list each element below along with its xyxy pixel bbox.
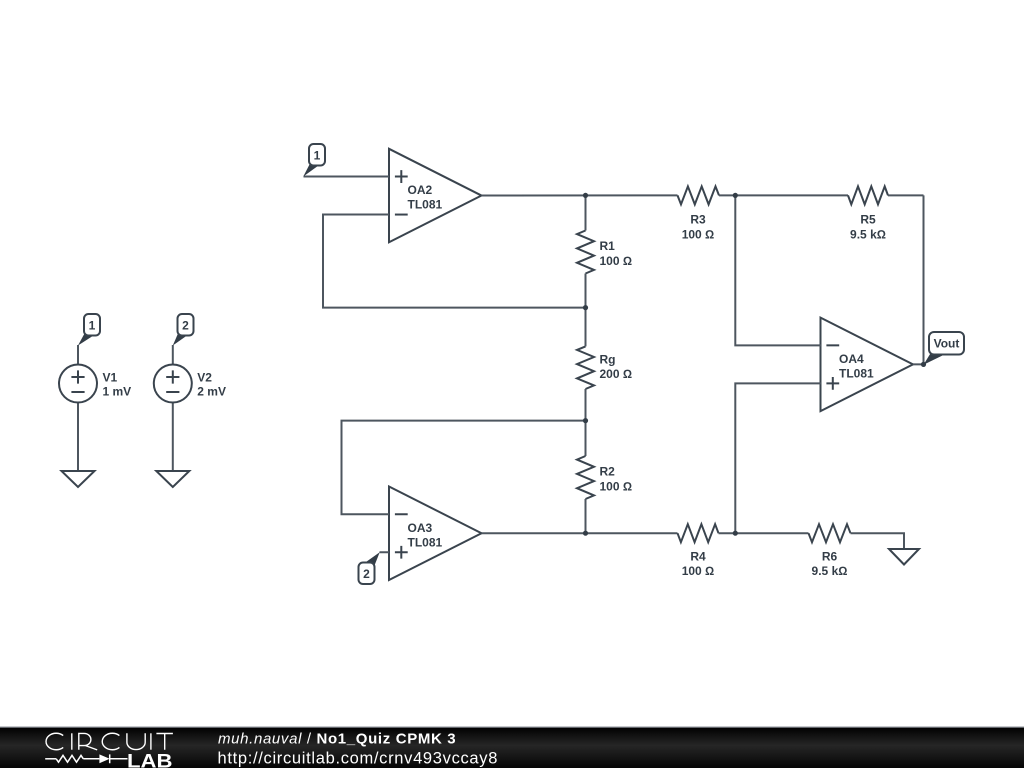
junction node (585.5,533.2) bbox=[583, 531, 588, 536]
resistor R2 bbox=[585, 421, 587, 456]
ground under V2 bbox=[156, 471, 189, 487]
svg-text:Rg: Rg bbox=[600, 352, 616, 366]
wire OA2 output bbox=[482, 194, 678, 196]
wire top of V1 bbox=[77, 345, 79, 365]
wire OA4 - input from R3 node bbox=[735, 195, 821, 345]
svg-text:OA3: OA3 bbox=[408, 521, 433, 535]
svg-text:2: 2 bbox=[182, 319, 189, 333]
svg-text:R3: R3 bbox=[690, 213, 706, 227]
svg-text:2 mV: 2 mV bbox=[197, 385, 226, 399]
svg-text:100 Ω: 100 Ω bbox=[600, 479, 633, 493]
ground at R6 bbox=[889, 549, 919, 565]
svg-text:R5: R5 bbox=[860, 213, 876, 227]
op-amp OA4 bbox=[821, 318, 914, 412]
node flag 1 on V1 bbox=[78, 334, 94, 346]
svg-text:9.5 kΩ: 9.5 kΩ bbox=[850, 227, 886, 241]
wire OA2 - feedback bbox=[323, 215, 586, 308]
op-amp OA2 bbox=[389, 149, 482, 243]
resistor R6 bbox=[735, 532, 808, 534]
svg-text:TL081: TL081 bbox=[839, 366, 874, 380]
wire OA2 + input bbox=[304, 176, 390, 178]
ground under V1 bbox=[62, 471, 95, 487]
svg-text:R6: R6 bbox=[822, 550, 838, 564]
node flag 2 on V2 bbox=[173, 334, 187, 346]
svg-text:1: 1 bbox=[314, 149, 321, 163]
wire OA3 - feedback bbox=[342, 421, 586, 515]
svg-text:muh.nauval / No1_Quiz CPMK 3: muh.nauval / No1_Quiz CPMK 3 bbox=[218, 731, 456, 748]
op-amp OA3 bbox=[389, 487, 482, 581]
svg-text:100 Ω: 100 Ω bbox=[682, 564, 715, 578]
node flag 2 at OA3 bbox=[364, 552, 380, 567]
bottom bar bbox=[0, 727, 1024, 768]
junction node (585.5,420.6) bbox=[583, 418, 588, 423]
svg-text:R2: R2 bbox=[600, 465, 616, 479]
svg-text:OA2: OA2 bbox=[408, 183, 433, 197]
junction node (923.5,364.35) bbox=[921, 362, 926, 367]
svg-text:Vout: Vout bbox=[934, 337, 960, 351]
svg-text:TL081: TL081 bbox=[408, 198, 443, 212]
node flag Vout bbox=[924, 353, 945, 365]
wire OA3 + input bbox=[380, 551, 390, 553]
resistor Rg bbox=[585, 308, 587, 347]
wire OA4 + input from R4 node bbox=[735, 383, 821, 533]
svg-text:V1: V1 bbox=[103, 371, 118, 385]
wire OA4 output bbox=[913, 363, 924, 365]
junction node (735.3,533.2) bbox=[733, 531, 738, 536]
CircuitLab logo bbox=[46, 733, 173, 750]
svg-text:1 mV: 1 mV bbox=[103, 385, 132, 399]
svg-text:2: 2 bbox=[363, 567, 370, 581]
svg-text:200 Ω: 200 Ω bbox=[600, 367, 633, 381]
svg-text:100 Ω: 100 Ω bbox=[600, 254, 633, 268]
resistor R3 bbox=[678, 186, 720, 204]
svg-text:V2: V2 bbox=[197, 371, 212, 385]
junction node (585.5,307.6) bbox=[583, 305, 588, 310]
voltage source V1 bbox=[59, 365, 97, 403]
wire R5 to output bbox=[923, 195, 925, 364]
wire OA3 output bbox=[482, 532, 678, 534]
svg-text:R1: R1 bbox=[600, 239, 616, 253]
resistor R4 bbox=[678, 524, 719, 542]
resistor R1 bbox=[585, 195, 587, 230]
wire bottom of V1 bbox=[77, 402, 79, 472]
svg-text:100 Ω: 100 Ω bbox=[682, 227, 715, 241]
voltage source V2 bbox=[154, 365, 192, 403]
node flag 1 at OA2 bbox=[303, 164, 318, 177]
svg-text:R4: R4 bbox=[690, 550, 706, 564]
svg-text:http://circuitlab.com/crnv493v: http://circuitlab.com/crnv493vccay8 bbox=[218, 749, 499, 767]
resistor R5 bbox=[735, 194, 848, 196]
svg-text:LAB: LAB bbox=[127, 751, 173, 768]
junction node (735.3,195.4) bbox=[733, 193, 738, 198]
svg-text:1: 1 bbox=[89, 319, 96, 333]
svg-text:TL081: TL081 bbox=[408, 535, 443, 549]
svg-text:OA4: OA4 bbox=[839, 352, 864, 366]
junction node (585.5,195.4) bbox=[583, 193, 588, 198]
svg-text:9.5 kΩ: 9.5 kΩ bbox=[812, 564, 848, 578]
wire top of V2 bbox=[172, 345, 174, 365]
wire bottom of V2 bbox=[172, 402, 174, 472]
